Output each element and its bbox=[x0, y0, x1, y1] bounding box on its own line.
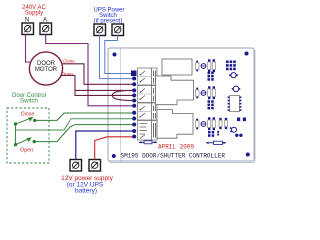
capacitor pair C2 bbox=[208, 86, 216, 99]
terminal block 1 bbox=[138, 68, 158, 85]
capacitor pair C1 bbox=[208, 59, 216, 72]
diode D2 bbox=[201, 91, 206, 96]
label UPS Power Switch (if present) bbox=[93, 8, 124, 25]
board inner fold line bbox=[119, 49, 121, 161]
mounting hole bottom-left bbox=[112, 154, 116, 158]
capacitor pair C3 bbox=[208, 117, 216, 130]
relay RL2 bbox=[156, 76, 194, 105]
switch open contact (lever arrow) bbox=[14, 138, 35, 146]
door motor bbox=[29, 52, 62, 85]
fuse F1 bbox=[139, 141, 157, 144]
fuse F2 bbox=[206, 141, 226, 144]
label 240V AC Supply bbox=[22, 5, 46, 17]
terminal N bbox=[22, 23, 34, 35]
wire green close bbox=[35, 113, 134, 120]
svg-text:SM195 DOOR/SHUTTER CONTROLLER: SM195 DOOR/SHUTTER CONTROLLER bbox=[121, 152, 226, 159]
relay RL1 bbox=[162, 59, 192, 75]
terminal block cell dividers bbox=[138, 77, 152, 112]
wire UPS1 blue bbox=[100, 36, 135, 79]
svg-text:Supply: Supply bbox=[25, 11, 43, 17]
board terminal pad square bbox=[131, 71, 137, 77]
svg-text:MOTOR: MOTOR bbox=[35, 67, 58, 73]
label Door Control Switch bbox=[12, 93, 46, 105]
board terminal dots column bbox=[132, 77, 136, 139]
terminal block 2 bbox=[138, 86, 158, 103]
svg-text:battery): battery) bbox=[75, 187, 97, 194]
diode D1 bbox=[201, 64, 206, 69]
wire Open branch to dot bbox=[75, 90, 134, 95]
terminal block 4 bbox=[138, 121, 158, 141]
wire Open motor to board bbox=[62, 75, 135, 90]
resistor R1 bbox=[195, 60, 199, 71]
wire green common bbox=[16, 119, 135, 130]
resistor R3 bbox=[195, 118, 199, 129]
switch close contact (lever arrow) bbox=[14, 118, 36, 126]
switch common link bbox=[15, 124, 17, 145]
terminal A bbox=[40, 23, 52, 35]
wire N to motor bbox=[26, 35, 31, 63]
resistor R4 bbox=[219, 118, 222, 129]
terminal UPS 2 bbox=[112, 24, 124, 36]
terminal block 3 bbox=[138, 103, 158, 120]
pad cluster Q2 bbox=[208, 100, 214, 109]
transistor T3 bbox=[230, 127, 237, 132]
svg-text:Close: Close bbox=[63, 58, 75, 63]
pad pair P1 bbox=[237, 118, 246, 122]
wire 12V- red bbox=[95, 137, 134, 160]
resistor R5 bbox=[225, 118, 228, 129]
svg-text:APRIL 2009: APRIL 2009 bbox=[158, 144, 194, 151]
board SM195 bbox=[108, 48, 255, 163]
pad cluster Q3 bbox=[208, 131, 214, 137]
wire Close motor to board bbox=[63, 64, 135, 85]
pad cluster Q1 bbox=[208, 72, 214, 81]
wire green open bbox=[34, 125, 134, 142]
mounting hole top-left bbox=[113, 53, 117, 57]
svg-text:Close: Close bbox=[21, 112, 35, 118]
mounting hole top-right bbox=[245, 52, 249, 56]
relay RL3 bbox=[157, 110, 193, 139]
transistor T1 bbox=[229, 73, 238, 78]
terminal 12V + bbox=[70, 160, 82, 172]
resistor R2 bbox=[195, 87, 199, 98]
terminal block label squiggles bbox=[153, 71, 155, 138]
diode D3 bbox=[201, 122, 206, 127]
terminal 12V - bbox=[89, 160, 101, 172]
wire UPS2 blue bbox=[105, 36, 132, 74]
wire 12V+ navy bbox=[76, 131, 134, 160]
pad pair P3 bbox=[217, 131, 219, 136]
transistor T2 bbox=[232, 86, 241, 92]
svg-text:Open: Open bbox=[20, 147, 33, 153]
trimpot VR1 bbox=[226, 61, 236, 71]
wire A to board dot5 bbox=[46, 35, 134, 106]
mounting hole bottom-right bbox=[246, 153, 250, 157]
terminal block contact marks bbox=[140, 71, 148, 139]
svg-text:Switch: Switch bbox=[20, 99, 38, 105]
door control switch dashed box bbox=[7, 108, 49, 163]
terminal UPS 1 bbox=[94, 24, 106, 36]
pad cluster P2 bbox=[235, 134, 242, 137]
jumper loop on terminals bbox=[112, 90, 133, 100]
IC U1 DIP bbox=[228, 96, 242, 112]
